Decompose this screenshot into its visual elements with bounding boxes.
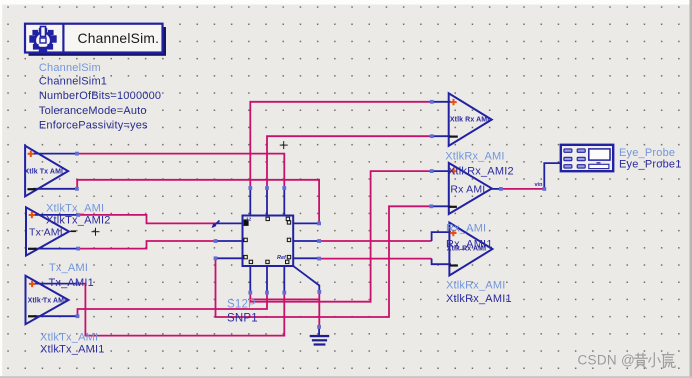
svg-text:Eye_Probe1: Eye_Probe1 [619, 159, 682, 171]
svg-text:12: 12 [246, 217, 252, 223]
svg-text:XtlkTx_AMI2: XtlkTx_AMI2 [46, 214, 111, 226]
svg-text:Xtlk Tx AMI: Xtlk Tx AMI [28, 298, 67, 305]
svg-text:Tx_AMI: Tx_AMI [49, 262, 88, 274]
svg-text:XtlkRx_AMI2: XtlkRx_AMI2 [448, 166, 514, 178]
svg-text:NumberOfBits=1000000: NumberOfBits=1000000 [39, 90, 161, 102]
svg-text:XtlkTx_AMI: XtlkTx_AMI [40, 331, 98, 343]
svg-text:ChannelSim: ChannelSim [39, 62, 101, 74]
svg-text:CSDN @: CSDN @ [578, 352, 636, 367]
svg-text:XtlkRx_AMI: XtlkRx_AMI [445, 150, 504, 162]
svg-text:SNP1: SNP1 [227, 312, 258, 324]
svg-text:XtlkRx_AMI: XtlkRx_AMI [446, 280, 505, 292]
svg-text:ChannelSim.: ChannelSim. [78, 31, 160, 46]
svg-text:Xtlk Tx AMI: Xtlk Tx AMI [25, 168, 64, 175]
svg-text:Tx AMI: Tx AMI [29, 226, 63, 238]
svg-text:Rx_AMI: Rx_AMI [446, 222, 486, 234]
svg-text:XtlkTx_AMI1: XtlkTx_AMI1 [40, 344, 105, 356]
svg-text:ChannelSim1: ChannelSim1 [39, 76, 107, 88]
svg-text:Ref: Ref [277, 255, 287, 261]
svg-text:S12P: S12P [227, 299, 256, 311]
svg-text:Rx AMI: Rx AMI [450, 183, 485, 195]
svg-text:ToleranceMode=Auto: ToleranceMode=Auto [39, 105, 147, 117]
svg-text:Xtlk Rx AMI: Xtlk Rx AMI [450, 116, 489, 123]
svg-text:XtlkTx_AMI: XtlkTx_AMI [46, 203, 104, 215]
svg-text:vin: vin [535, 182, 544, 188]
svg-text:Tx_AMI1: Tx_AMI1 [49, 277, 94, 289]
svg-text:Rx_AMI1: Rx_AMI1 [446, 239, 493, 251]
svg-text:Eye_Probe: Eye_Probe [619, 147, 675, 159]
svg-text:XtlkRx_AMI1: XtlkRx_AMI1 [446, 293, 512, 305]
svg-text:EnforcePassivity=yes: EnforcePassivity=yes [39, 119, 148, 131]
